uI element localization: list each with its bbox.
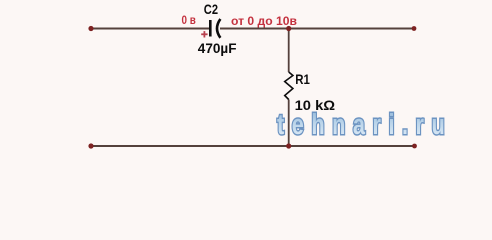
svg-text:470µF: 470µF (198, 40, 237, 56)
wire vertical lower (R1 to bottom wire) (288, 100, 290, 147)
wire bottom (91, 145, 415, 147)
wire vertical upper (junction to R1) (288, 29, 290, 73)
junction top (wire T to R1 branch) (286, 26, 291, 31)
svg-text:10 kΩ: 10 kΩ (295, 97, 336, 113)
svg-text:C2: C2 (204, 1, 218, 17)
wire top-left (node to C2 left plate) (91, 28, 210, 30)
polarity + of C2 (201, 31, 207, 37)
wire top-right (C2 right plate to right node) (220, 28, 414, 30)
svg-text:tehnari.ru: tehnari.ru (277, 109, 452, 141)
svg-text:R1: R1 (295, 71, 310, 87)
node bottom-right terminal (412, 144, 417, 149)
node bottom-left terminal (88, 143, 93, 148)
resistor R1 zigzag (285, 72, 293, 100)
capacitor C2 (polarized): straight plate (209, 20, 212, 37)
junction bottom (R1 branch to bottom wire) (286, 143, 291, 148)
svg-text:от 0 до 10в: от 0 до 10в (231, 16, 297, 28)
node top-left terminal (88, 26, 93, 31)
node top-right terminal (412, 26, 417, 31)
svg-text:0 в: 0 в (182, 15, 196, 27)
capacitor C2: curved plate (217, 19, 220, 38)
